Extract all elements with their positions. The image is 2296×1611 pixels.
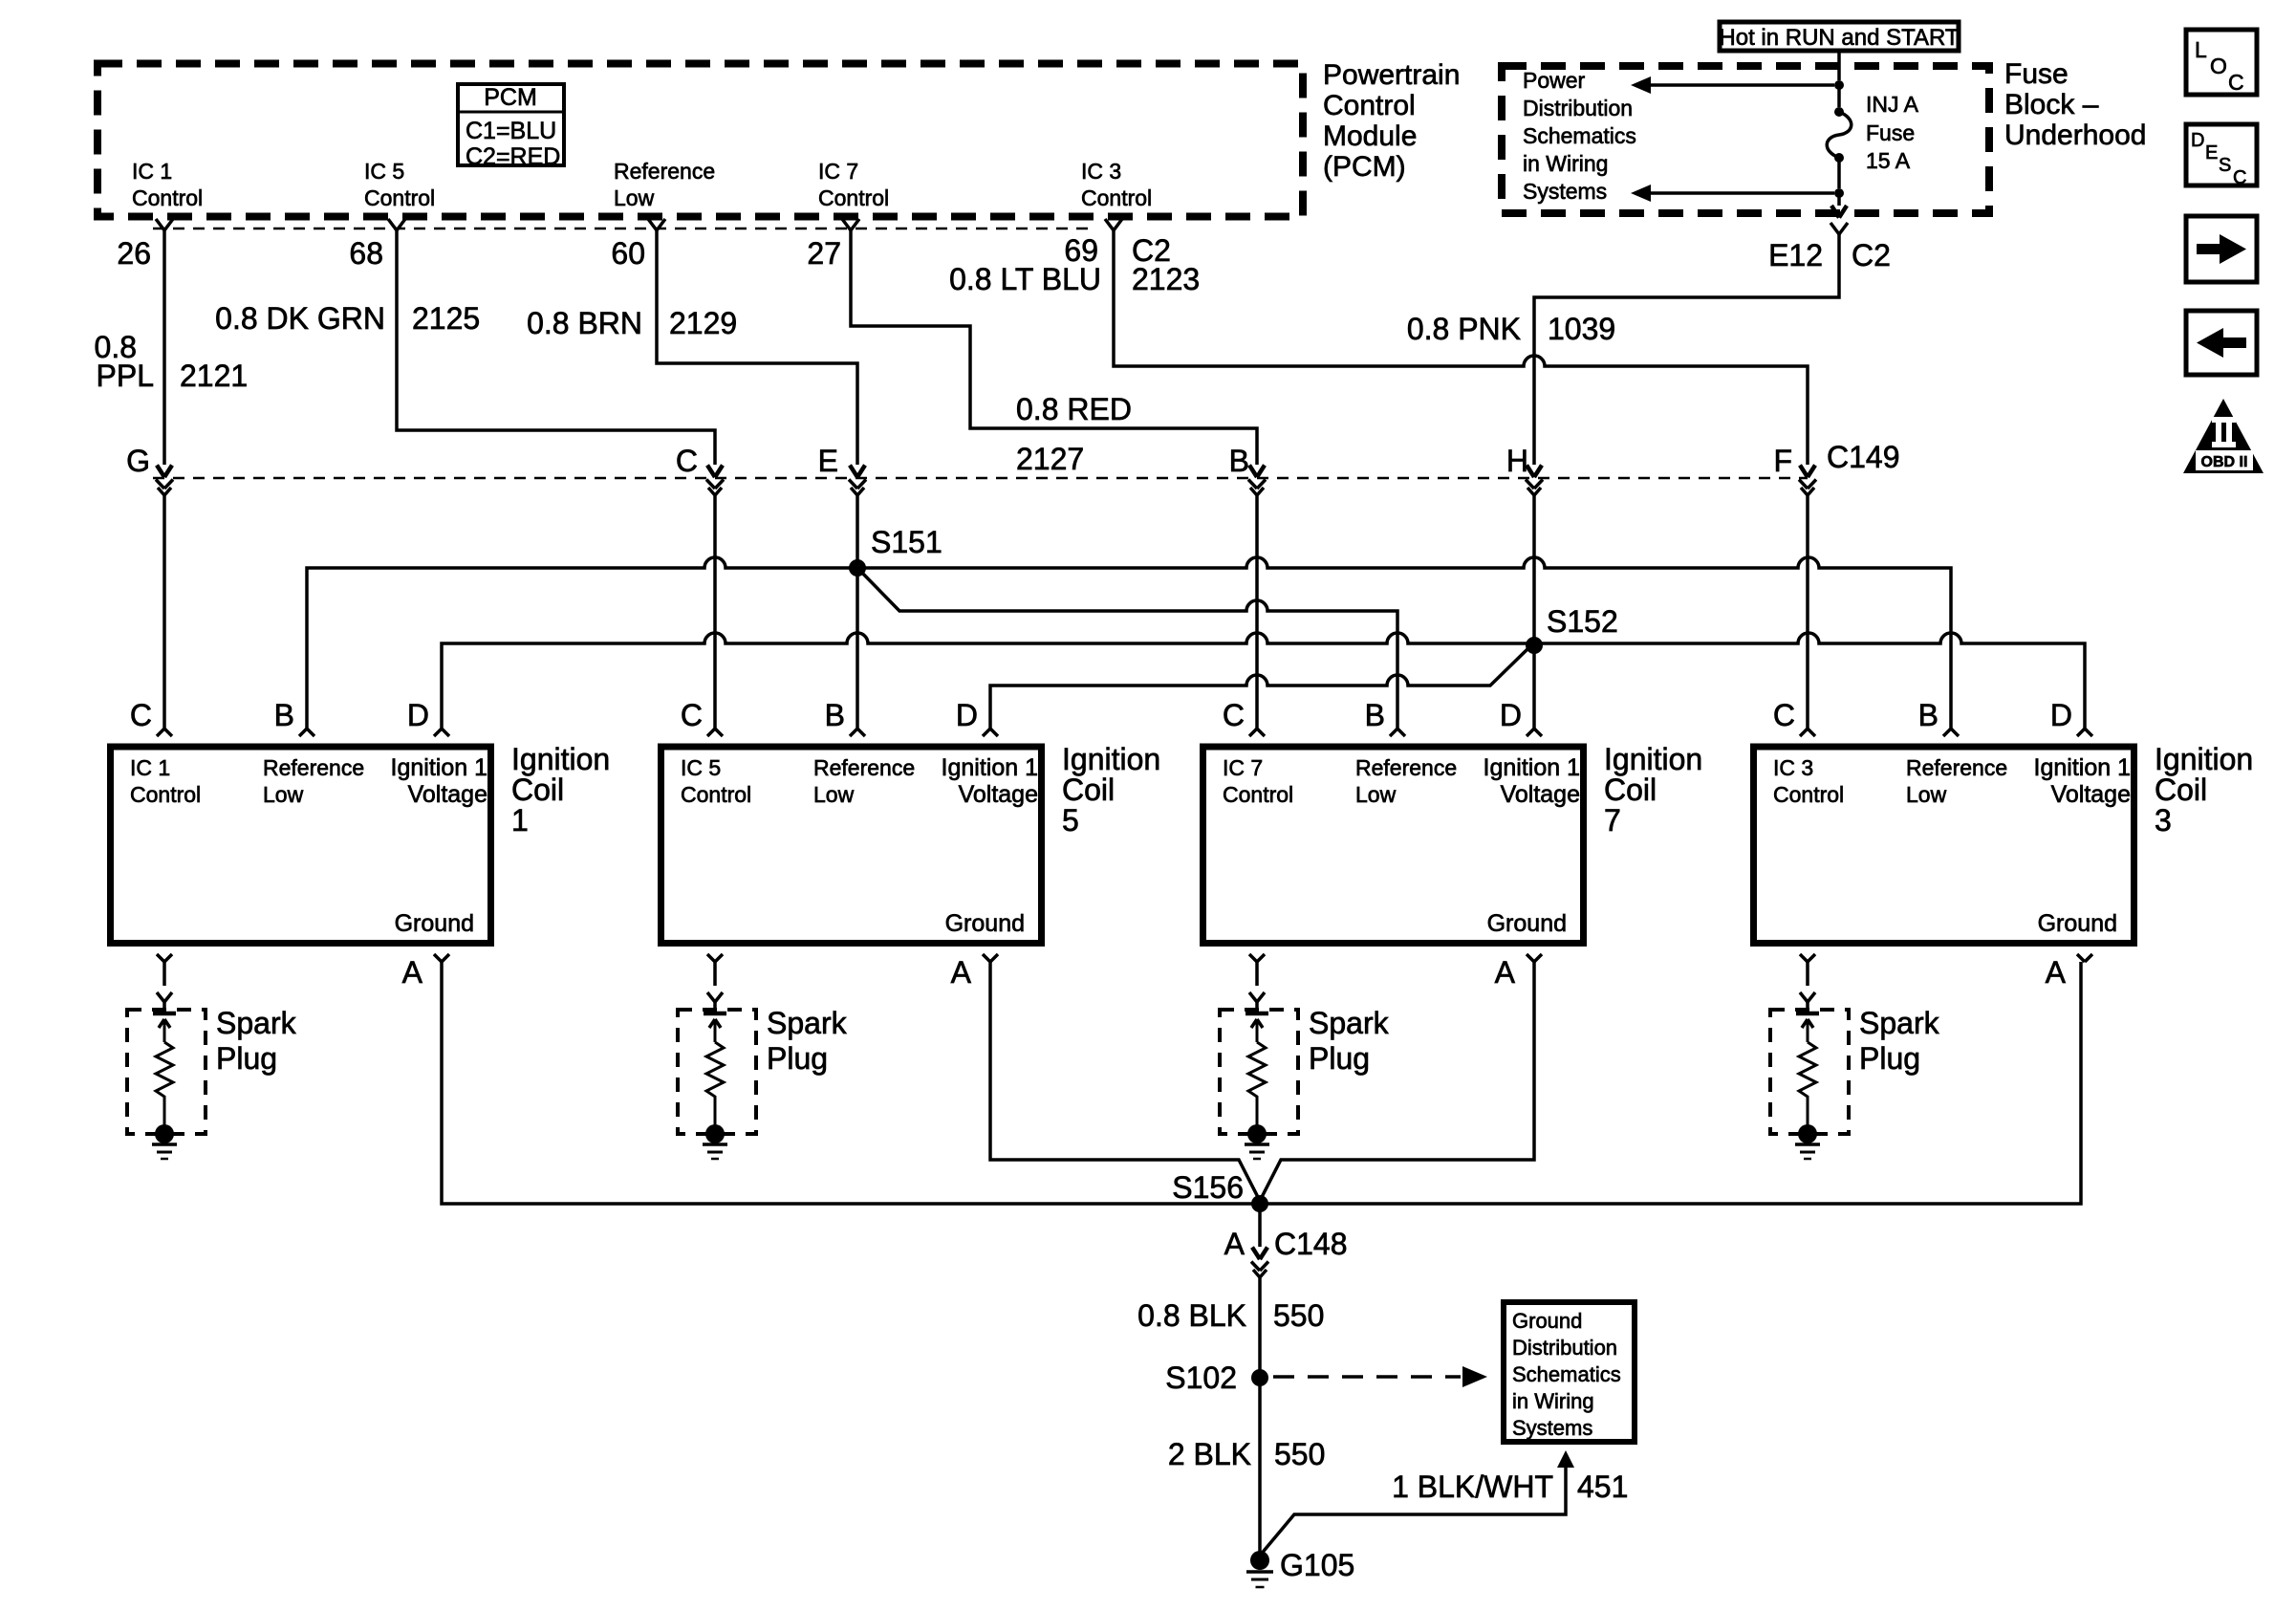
svg-text:IC 5: IC 5 bbox=[364, 159, 404, 184]
module box PCM (Powertrain Control Module) dashed outline bbox=[97, 64, 1303, 217]
ignition coil 3 pin D bbox=[2077, 729, 2092, 736]
svg-text:D: D bbox=[1500, 698, 1522, 732]
svg-text:IC 1: IC 1 bbox=[132, 159, 172, 184]
connector C149 crossing at x=897 bbox=[850, 466, 865, 478]
svg-text:F: F bbox=[1773, 444, 1792, 478]
svg-text:Spark: Spark bbox=[216, 1006, 297, 1040]
svg-text:C2: C2 bbox=[1852, 238, 1891, 272]
ignition coil 5 spark plug output pin bbox=[707, 954, 723, 962]
connector C149 crossing at x=1891 bbox=[1800, 466, 1815, 478]
svg-text:PPL: PPL bbox=[97, 359, 154, 393]
svg-text:Control: Control bbox=[130, 782, 201, 807]
spark plug (coil 3) gap electrode bbox=[1796, 1012, 1819, 1016]
connector C149 crossing at x=748 bbox=[707, 466, 723, 478]
svg-text:S: S bbox=[2219, 155, 2231, 176]
svg-text:1 BLK/WHT: 1 BLK/WHT bbox=[1392, 1469, 1553, 1504]
connector C148 bbox=[1252, 1248, 1267, 1260]
ignition coil 1 pin D bbox=[434, 729, 449, 736]
legend icon forward arrow box bbox=[2186, 216, 2257, 282]
svg-text:Reference: Reference bbox=[263, 755, 364, 780]
wire coil 3 to spark plug bbox=[1806, 962, 1809, 986]
svg-text:G105: G105 bbox=[1280, 1548, 1354, 1582]
wire coil 5 to spark plug bbox=[713, 962, 717, 986]
ignition coil 7 pin D bbox=[1527, 729, 1542, 736]
ignition coil 1 pin A ground bbox=[434, 954, 449, 962]
wire from fuse to E12 C2 connector bbox=[1837, 197, 1841, 206]
svg-text:Coil: Coil bbox=[1604, 773, 1657, 807]
ignition coil 5 box bbox=[661, 747, 1042, 944]
svg-text:A: A bbox=[2046, 955, 2067, 990]
svg-text:0.8 PNK: 0.8 PNK bbox=[1407, 312, 1521, 346]
ignition coil 3 box bbox=[1754, 747, 2134, 944]
svg-text:Voltage: Voltage bbox=[408, 781, 487, 808]
svg-text:5: 5 bbox=[1062, 803, 1079, 838]
svg-text:3: 3 bbox=[2155, 803, 2172, 838]
junction dot above fuse bbox=[1834, 80, 1844, 90]
wire from Ignition Coil 5 pin D to S152 bbox=[990, 647, 1529, 729]
legend icon OBD II triangle bbox=[2183, 399, 2264, 473]
spark plug (coil 1) dashed box bbox=[127, 1010, 206, 1134]
svg-text:2127: 2127 bbox=[1016, 442, 1084, 476]
svg-text:Control: Control bbox=[681, 782, 751, 807]
ignition coil 1 box bbox=[111, 747, 491, 944]
svg-text:Low: Low bbox=[1906, 782, 1947, 807]
svg-text:H: H bbox=[1506, 444, 1528, 478]
svg-text:15 A: 15 A bbox=[1866, 148, 1911, 173]
svg-text:Systems: Systems bbox=[1512, 1416, 1592, 1440]
svg-text:Voltage: Voltage bbox=[1501, 781, 1580, 808]
ignition coil 7 pin C bbox=[1249, 729, 1265, 736]
svg-text:Voltage: Voltage bbox=[959, 781, 1038, 808]
connector C1 dashed line bbox=[153, 228, 1094, 230]
svg-text:in Wiring: in Wiring bbox=[1523, 151, 1608, 176]
wire G to Ignition Coil 1 pin C bbox=[162, 495, 166, 729]
svg-text:Plug: Plug bbox=[1309, 1041, 1370, 1076]
svg-text:Coil: Coil bbox=[2155, 773, 2207, 807]
svg-text:Systems: Systems bbox=[1523, 179, 1607, 204]
svg-text:Voltage: Voltage bbox=[2051, 781, 2131, 808]
svg-text:451: 451 bbox=[1577, 1469, 1628, 1504]
svg-text:E: E bbox=[818, 444, 838, 478]
svg-text:D: D bbox=[2050, 698, 2072, 732]
wire 2 BLK 550 from S102 to G105 bbox=[1258, 1378, 1262, 1556]
svg-text:in Wiring: in Wiring bbox=[1512, 1389, 1594, 1413]
svg-text:Reference: Reference bbox=[1355, 755, 1457, 780]
spark plug (coil 5) dashed box bbox=[678, 1010, 756, 1134]
svg-text:G: G bbox=[126, 444, 150, 478]
ignition coil 1 pin C bbox=[157, 729, 172, 736]
wire ignition 1 voltage bus from coil 1 D through S152 to coil 3 D bbox=[442, 633, 2085, 729]
fuse INJ A 15 A element bbox=[1834, 107, 1844, 117]
ignition coil 5 pin C bbox=[707, 729, 723, 736]
svg-text:C: C bbox=[1773, 698, 1795, 732]
svg-text:Plug: Plug bbox=[767, 1041, 828, 1076]
ignition coil 5 pin D bbox=[983, 729, 998, 736]
svg-text:Ground: Ground bbox=[395, 910, 474, 937]
svg-text:2 BLK: 2 BLK bbox=[1168, 1437, 1251, 1471]
wire C to Ignition Coil 5 pin C bbox=[713, 495, 717, 729]
spark plug (coil 7) gap electrode bbox=[1245, 1012, 1268, 1016]
wire 0.8 PNK 1039 from E12 to C149 H bbox=[1534, 234, 1839, 465]
reference box Ground Distribution Schematics in Wiring Systems bbox=[1504, 1302, 1635, 1442]
svg-text:S152: S152 bbox=[1547, 604, 1618, 639]
svg-text:OBD II: OBD II bbox=[2201, 454, 2248, 470]
PCM connector color legend box bbox=[458, 84, 564, 165]
svg-text:D: D bbox=[407, 698, 429, 732]
svg-text:Low: Low bbox=[614, 185, 655, 210]
svg-text:B: B bbox=[274, 698, 294, 732]
svg-text:Low: Low bbox=[1355, 782, 1397, 807]
svg-text:Fuse: Fuse bbox=[1866, 120, 1915, 145]
wire coil 1 to spark plug bbox=[162, 962, 166, 986]
wire coil 1 A and coil 3 A ground bus through S156 bbox=[442, 962, 2081, 1204]
wire 0.8 BLK 550 from C148 to S102 bbox=[1258, 1277, 1262, 1378]
svg-text:Distribution: Distribution bbox=[1512, 1336, 1617, 1360]
ignition coil 7 pin B bbox=[1390, 729, 1405, 736]
svg-text:Control: Control bbox=[1081, 185, 1152, 210]
svg-text:Spark: Spark bbox=[1859, 1006, 1940, 1040]
wire from S151 to Ignition Coil 7 pin B bbox=[857, 568, 1397, 729]
svg-text:D: D bbox=[2191, 130, 2204, 151]
svg-text:Ignition 1: Ignition 1 bbox=[942, 754, 1038, 781]
wire H to splice S152 bbox=[1532, 495, 1536, 645]
legend icon LOC box bbox=[2186, 30, 2257, 95]
spark plug (coil 5) ground bbox=[705, 1124, 725, 1143]
svg-text:C: C bbox=[2233, 167, 2246, 188]
svg-text:2121: 2121 bbox=[180, 359, 248, 393]
svg-text:Ignition: Ignition bbox=[2155, 742, 2253, 776]
wire from Hot in RUN and START into fuse block bbox=[1837, 53, 1841, 80]
svg-text:Ground: Ground bbox=[1512, 1309, 1582, 1333]
svg-text:Ground: Ground bbox=[2038, 910, 2117, 937]
svg-text:0.8 BLK: 0.8 BLK bbox=[1137, 1298, 1246, 1333]
svg-text:IC 1: IC 1 bbox=[130, 755, 170, 780]
ignition coil 7 box bbox=[1203, 747, 1584, 944]
splice S102 bbox=[1251, 1369, 1268, 1386]
svg-text:L: L bbox=[2195, 37, 2207, 62]
svg-text:B: B bbox=[1229, 444, 1249, 478]
svg-text:Coil: Coil bbox=[1062, 773, 1115, 807]
svg-text:Fuse: Fuse bbox=[2004, 58, 2069, 90]
svg-text:550: 550 bbox=[1274, 1437, 1325, 1471]
ignition coil 3 pin B bbox=[1943, 729, 1959, 736]
svg-text:Control: Control bbox=[1773, 782, 1844, 807]
ignition coil 5 pin B bbox=[850, 729, 865, 736]
svg-text:S151: S151 bbox=[871, 525, 942, 559]
svg-text:Ignition: Ignition bbox=[1604, 742, 1702, 776]
ignition coil 3 pin A ground bbox=[2077, 954, 2092, 962]
svg-text:60: 60 bbox=[611, 236, 645, 271]
svg-text:1039: 1039 bbox=[1548, 312, 1615, 346]
spark plug (coil 1) gap electrode bbox=[153, 1012, 176, 1016]
connector C149 crossing at x=1315 bbox=[1249, 466, 1265, 478]
legend icon DESC box bbox=[2186, 124, 2257, 185]
ignition coil 7 spark plug output pin bbox=[1249, 954, 1265, 962]
wire 0.8 BRN 2129 from pin 60 to C149 E bbox=[657, 230, 857, 465]
svg-text:26: 26 bbox=[117, 236, 151, 271]
spark plug (coil 7) dashed box bbox=[1220, 1010, 1298, 1134]
svg-text:Ignition 1: Ignition 1 bbox=[1484, 754, 1580, 781]
wire S156 to connector C148 bbox=[1258, 1204, 1262, 1247]
spark plug (coil 1) ground bbox=[155, 1124, 174, 1143]
svg-text:Hot in RUN and START: Hot in RUN and START bbox=[1719, 25, 1960, 51]
wire arrow to Power Distribution Schematics (top) bbox=[1650, 83, 1834, 87]
svg-text:Schematics: Schematics bbox=[1523, 123, 1636, 148]
svg-text:0.8 LT BLU: 0.8 LT BLU bbox=[949, 262, 1101, 296]
svg-text:INJ A: INJ A bbox=[1866, 92, 1919, 117]
wire 0.8 DK GRN 2125 from pin 68 to C149 C bbox=[397, 230, 715, 465]
svg-text:C: C bbox=[676, 444, 698, 478]
connector C1 cavity at x=890 bbox=[842, 219, 859, 230]
spark plug (coil 3) ground bbox=[1798, 1124, 1817, 1143]
wire from S151 down to Ignition Coil 5 pin B bbox=[856, 568, 859, 729]
svg-text:Reference: Reference bbox=[614, 159, 715, 184]
spark plug (coil 3) dashed box bbox=[1770, 1010, 1849, 1134]
svg-text:IC 7: IC 7 bbox=[1223, 755, 1263, 780]
connector C149 crossing at x=172 bbox=[157, 466, 172, 478]
svg-text:Powertrain: Powertrain bbox=[1323, 59, 1460, 91]
svg-text:Underhood: Underhood bbox=[2004, 120, 2146, 151]
connector C1 cavity at x=415 bbox=[388, 219, 405, 230]
svg-text:IC 7: IC 7 bbox=[818, 159, 858, 184]
svg-text:550: 550 bbox=[1273, 1298, 1324, 1333]
svg-text:Ignition 1: Ignition 1 bbox=[2034, 754, 2131, 781]
svg-text:IC 5: IC 5 bbox=[681, 755, 721, 780]
svg-text:0.8 DK GRN: 0.8 DK GRN bbox=[215, 301, 385, 336]
wire 1 BLK/WHT 451 from G105 to Ground Distribution Schematics bbox=[1260, 1468, 1566, 1556]
svg-text:A: A bbox=[1224, 1227, 1245, 1261]
svg-text:C2=RED: C2=RED bbox=[466, 143, 560, 170]
connector C149 crossing at x=1605 bbox=[1527, 466, 1542, 478]
connector C1 cavity at x=687 bbox=[648, 219, 665, 230]
ignition coil 1 spark plug output pin bbox=[157, 954, 172, 962]
svg-text:Ignition: Ignition bbox=[1062, 742, 1160, 776]
wire E to splice S151 bbox=[856, 495, 859, 568]
spark plug (coil 7) resistor bbox=[1248, 1042, 1266, 1125]
svg-text:2129: 2129 bbox=[669, 306, 737, 340]
svg-text:O: O bbox=[2210, 54, 2227, 78]
spark plug (coil 3) resistor bbox=[1799, 1042, 1816, 1125]
svg-text:Coil: Coil bbox=[511, 773, 564, 807]
svg-text:Power: Power bbox=[1523, 68, 1586, 93]
svg-text:7: 7 bbox=[1604, 803, 1621, 838]
svg-text:27: 27 bbox=[807, 236, 841, 271]
wire 0.8 LT BLU 2123 from pin 27 to C149 B (RED 2127 segment) bbox=[851, 230, 1257, 465]
connector C1 cavity at x=1165 bbox=[1105, 219, 1122, 230]
wire from pin 69 C2 to C149 F with hump over PNK wire bbox=[1114, 230, 1808, 465]
svg-text:S156: S156 bbox=[1172, 1170, 1244, 1205]
ignition coil 1 pin B bbox=[299, 729, 314, 736]
ignition coil 5 pin A ground bbox=[983, 954, 998, 962]
svg-text:C: C bbox=[2228, 70, 2244, 95]
svg-text:IC 3: IC 3 bbox=[1773, 755, 1813, 780]
svg-text:Control: Control bbox=[818, 185, 889, 210]
ignition coil 3 spark plug output pin bbox=[1800, 954, 1815, 962]
svg-text:S102: S102 bbox=[1165, 1361, 1237, 1395]
svg-text:Plug: Plug bbox=[216, 1041, 277, 1076]
svg-text:E: E bbox=[2205, 142, 2218, 163]
svg-text:B: B bbox=[825, 698, 845, 732]
wire F to Ignition Coil 3 pin C bbox=[1806, 495, 1809, 729]
svg-text:Low: Low bbox=[813, 782, 855, 807]
wire coil 5 A and coil 7 A to splice S156 bbox=[990, 962, 1534, 1201]
svg-text:Reference: Reference bbox=[1906, 755, 2007, 780]
svg-text:Ignition 1: Ignition 1 bbox=[391, 754, 487, 781]
svg-text:Spark: Spark bbox=[767, 1006, 848, 1040]
svg-text:Control: Control bbox=[1223, 782, 1293, 807]
svg-text:Control: Control bbox=[364, 185, 435, 210]
wire arrow to Power Distribution Schematics (bottom) bbox=[1650, 191, 1834, 195]
svg-text:PCM: PCM bbox=[484, 84, 537, 111]
power feed box Hot in RUN and START bbox=[1720, 22, 1959, 51]
spark plug (coil 5) resistor bbox=[706, 1042, 724, 1125]
svg-text:C149: C149 bbox=[1827, 440, 1900, 474]
wire coil 7 to spark plug bbox=[1255, 962, 1259, 986]
splice S151 bbox=[849, 559, 866, 577]
svg-text:Spark: Spark bbox=[1309, 1006, 1390, 1040]
svg-text:C: C bbox=[130, 698, 152, 732]
svg-text:D: D bbox=[956, 698, 978, 732]
svg-text:Control: Control bbox=[1323, 90, 1416, 121]
svg-text:Ignition: Ignition bbox=[511, 742, 610, 776]
wire 0.8 PPL 2121 from pin 26 to C149 G bbox=[162, 230, 166, 465]
wire B to Ignition Coil 7 pin C bbox=[1255, 495, 1259, 729]
svg-text:IC 3: IC 3 bbox=[1081, 159, 1121, 184]
splice S152 bbox=[1526, 637, 1543, 654]
svg-text:B: B bbox=[1365, 698, 1385, 732]
dashed wire S102 to Ground Distribution Schematics bbox=[1273, 1375, 1461, 1379]
svg-text:C: C bbox=[681, 698, 703, 732]
svg-text:0.8 BRN: 0.8 BRN bbox=[527, 306, 642, 340]
svg-text:E12: E12 bbox=[1768, 238, 1823, 272]
svg-text:(PCM): (PCM) bbox=[1323, 151, 1406, 183]
svg-text:Ground: Ground bbox=[1487, 910, 1567, 937]
svg-text:B: B bbox=[1918, 698, 1939, 732]
svg-text:2125: 2125 bbox=[412, 301, 480, 336]
svg-text:Low: Low bbox=[263, 782, 304, 807]
wire reference low bus through S151 to coil 1 B and coil 3 B bbox=[307, 557, 1951, 729]
ground G105 bbox=[1250, 1551, 1269, 1570]
spark plug (coil 5) gap electrode bbox=[704, 1012, 726, 1016]
module box Fuse Block - Underhood dashed outline bbox=[1502, 66, 1989, 213]
splice S156 bbox=[1251, 1195, 1268, 1212]
svg-text:Module: Module bbox=[1323, 120, 1417, 152]
ignition coil 7 pin A ground bbox=[1527, 954, 1542, 962]
svg-text:C1=BLU: C1=BLU bbox=[466, 118, 556, 144]
svg-text:A: A bbox=[402, 955, 423, 990]
svg-text:0.8 RED: 0.8 RED bbox=[1016, 392, 1132, 426]
connector C1 cavity at x=172 bbox=[156, 219, 173, 230]
junction dot below fuse bbox=[1834, 188, 1844, 198]
svg-text:Control: Control bbox=[132, 185, 203, 210]
ignition coil 3 pin C bbox=[1800, 729, 1815, 736]
svg-text:A: A bbox=[1495, 955, 1516, 990]
svg-text:Reference: Reference bbox=[813, 755, 915, 780]
svg-text:2123: 2123 bbox=[1132, 262, 1200, 296]
svg-text:68: 68 bbox=[349, 236, 383, 271]
svg-text:1: 1 bbox=[511, 803, 529, 838]
connector C149 dashed line bbox=[153, 477, 1808, 480]
spark plug (coil 7) ground bbox=[1247, 1124, 1267, 1143]
svg-text:Distribution: Distribution bbox=[1523, 96, 1633, 120]
svg-text:C: C bbox=[1223, 698, 1245, 732]
svg-text:Block –: Block – bbox=[2004, 89, 2099, 120]
svg-text:Schematics: Schematics bbox=[1512, 1362, 1621, 1386]
svg-text:Ground: Ground bbox=[945, 910, 1025, 937]
svg-text:A: A bbox=[951, 955, 972, 990]
svg-text:C148: C148 bbox=[1274, 1227, 1348, 1261]
wire from S152 down to Ignition Coil 7 pin D bbox=[1532, 645, 1536, 729]
legend icon back arrow box bbox=[2186, 311, 2257, 375]
spark plug (coil 1) resistor bbox=[156, 1042, 173, 1125]
svg-text:Plug: Plug bbox=[1859, 1041, 1920, 1076]
